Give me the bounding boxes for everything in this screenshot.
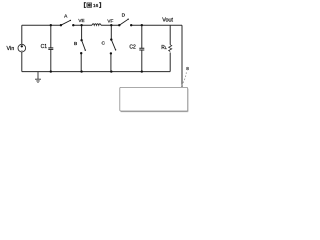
- svg-text:VE: VE: [78, 18, 84, 23]
- svg-text:16: 16: [93, 3, 99, 9]
- svg-text:C: C: [102, 41, 106, 47]
- svg-text:RL: RL: [161, 45, 167, 51]
- svg-text:Vout: Vout: [162, 17, 173, 23]
- svg-text:A: A: [64, 13, 68, 19]
- svg-text:Vin: Vin: [7, 46, 15, 52]
- svg-text:B: B: [74, 41, 77, 47]
- svg-text:D: D: [122, 12, 126, 18]
- svg-text:C1: C1: [41, 44, 48, 50]
- svg-text:C2: C2: [129, 44, 136, 50]
- svg-text:8: 8: [186, 66, 189, 71]
- svg-text:VF: VF: [107, 19, 113, 24]
